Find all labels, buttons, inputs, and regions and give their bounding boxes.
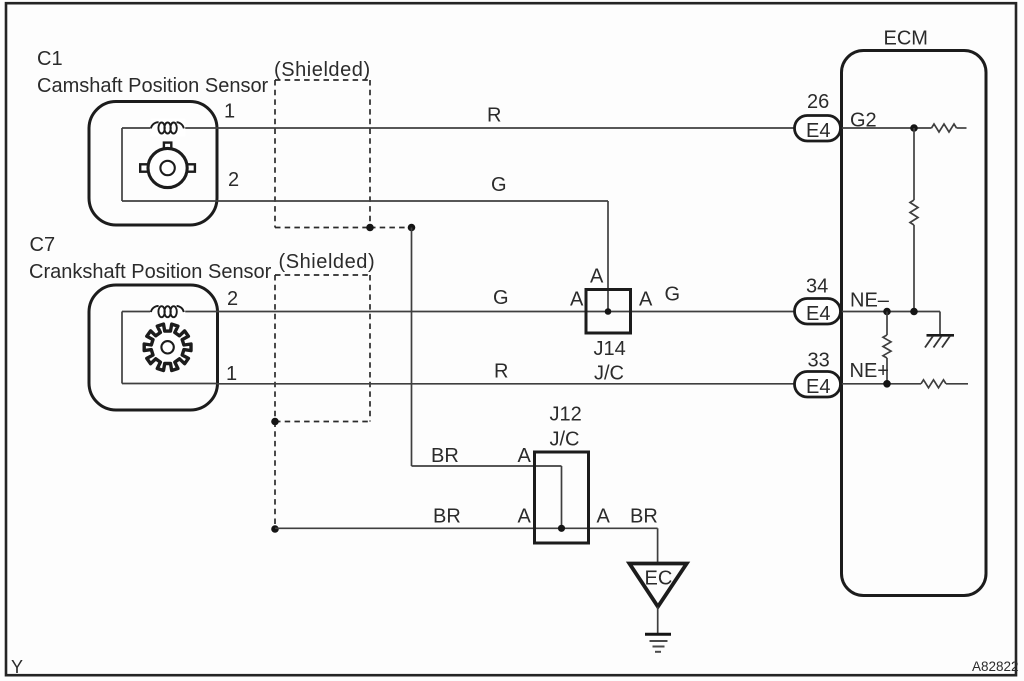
wire: NE- internal [842, 311, 941, 313]
wire: NE+ resistor stub [946, 383, 968, 385]
svg-text:Camshaft Position Sensor: Camshaft Position Sensor [37, 75, 269, 97]
wire: to chassis ground [939, 312, 941, 335]
svg-text:34: 34 [806, 276, 828, 298]
svg-text:EC: EC [645, 568, 673, 590]
wire: C1 internal pin2 horizontal [122, 200, 217, 202]
wire: C1 internal pin1 horizontal [122, 127, 217, 129]
wire: G2 node down [913, 128, 915, 200]
junction: G2 node [910, 124, 918, 132]
svg-text:A: A [590, 266, 604, 288]
shield dashed box crankshaft [275, 275, 370, 422]
svg-text:1: 1 [224, 101, 235, 123]
svg-text:E4: E4 [806, 120, 830, 142]
ECM box U1 [842, 51, 987, 596]
wire: J12 internal jog [535, 465, 562, 467]
svg-text:E4: E4 [806, 303, 830, 325]
svg-text:26: 26 [807, 91, 829, 113]
svg-text:Crankshaft Position Sensor: Crankshaft Position Sensor [29, 261, 272, 283]
wire BR: drain horizontal into J12 [412, 465, 536, 467]
wire R: C7 pin1 to E4-33 [217, 383, 795, 385]
wire: NE- to resistor [886, 312, 888, 336]
svg-text:R: R [487, 105, 501, 127]
svg-text:BR: BR [433, 506, 461, 528]
svg-text:J14: J14 [594, 338, 626, 360]
svg-text:(Shielded): (Shielded) [279, 251, 376, 273]
svg-text:2: 2 [228, 169, 239, 191]
connector E4 pin 33 [795, 372, 841, 398]
svg-text:G: G [491, 174, 507, 196]
wire: NE+ internal [842, 383, 922, 385]
svg-text:1: 1 [226, 363, 237, 385]
junction: shield2 drain to BR wire [271, 525, 279, 533]
svg-text:C1: C1 [37, 48, 63, 70]
svg-text:G: G [493, 287, 509, 309]
svg-text:2: 2 [227, 288, 238, 310]
wire BR: shield1 drain vertical [411, 228, 413, 467]
wire G: C7 pin2 to E4-34 [217, 311, 795, 313]
svg-text:J/C: J/C [594, 363, 624, 385]
svg-text:A: A [518, 506, 532, 528]
shield dashed box camshaft [275, 80, 370, 228]
junction: NE+ node [883, 380, 891, 388]
junction: NE- node B [910, 308, 918, 316]
wire: drop to EC ground [657, 528, 659, 563]
svg-text:NE+: NE+ [850, 360, 889, 382]
wire: C7 internal pin1 horizontal [122, 383, 217, 385]
wire G: C1 pin2 horizontal [217, 200, 608, 202]
ground chassis symbol [925, 335, 954, 347]
crankshaft position sensor C7 body [89, 285, 218, 410]
junction: J12 node [558, 525, 565, 532]
svg-text:A82822: A82822 [972, 659, 1019, 674]
wire: C1 internal vertical [121, 128, 123, 201]
shield2 drain dashed vertical [274, 422, 276, 530]
wire: resistor to NE+ [886, 358, 888, 384]
resistor: G2 pull [932, 124, 957, 132]
junction: NE- node A [883, 308, 891, 316]
svg-text:A: A [639, 289, 653, 311]
wire: EC to earth [657, 607, 659, 634]
inductor coil of C1 [150, 119, 185, 137]
connector E4 pin 34 [795, 299, 841, 325]
svg-text:A: A [570, 289, 584, 311]
svg-text:(Shielded): (Shielded) [274, 59, 371, 81]
junction: drain wire top [408, 224, 416, 232]
svg-text:E4: E4 [806, 376, 830, 398]
junction connector J14 box [586, 290, 631, 334]
junction: shield2 bottom corner [271, 418, 279, 426]
connector E4 pin 26 [795, 116, 841, 142]
wire BR: shield2 drain to EC [275, 527, 658, 529]
svg-text:C7: C7 [30, 234, 56, 256]
svg-text:NE–: NE– [850, 290, 890, 312]
wire R: C1 pin1 to E4-26 [217, 127, 795, 129]
svg-text:J12: J12 [550, 404, 582, 426]
svg-text:G2: G2 [850, 110, 877, 132]
junction connector J12 box [535, 452, 589, 543]
inductor coil of C7 [150, 303, 185, 321]
svg-text:Y: Y [11, 657, 23, 677]
svg-text:BR: BR [630, 506, 658, 528]
svg-text:R: R [494, 361, 508, 383]
svg-text:BR: BR [431, 445, 459, 467]
camshaft trigger symbol [140, 143, 195, 188]
wire: resistor to NE- node [913, 225, 915, 312]
wire: G2 resistor stub [957, 127, 967, 129]
svg-text:ECM: ECM [884, 28, 928, 50]
svg-text:J/C: J/C [550, 429, 580, 451]
ground earth symbol [645, 634, 671, 652]
resistor: NE- to NE+ [883, 335, 891, 358]
wire: C7 internal vertical [121, 312, 123, 384]
junction: shield1 bottom corner [366, 224, 374, 232]
svg-text:G: G [665, 284, 681, 306]
ground EC triangle [629, 564, 686, 607]
junction: J14 center [605, 308, 612, 315]
svg-text:33: 33 [808, 350, 830, 372]
svg-text:A: A [518, 445, 532, 467]
wire: G2 internal [842, 127, 932, 129]
shield drain dashed link [370, 227, 412, 229]
wire G: vertical drop to J14 [607, 201, 609, 312]
resistor: NE+ series [921, 380, 946, 388]
crankshaft gear symbol [144, 324, 191, 370]
wire: C7 internal pin2 horizontal [122, 311, 217, 313]
resistor: G2 to NE- [910, 200, 918, 225]
camshaft position sensor C1 body [89, 102, 217, 226]
svg-text:A: A [597, 506, 611, 528]
